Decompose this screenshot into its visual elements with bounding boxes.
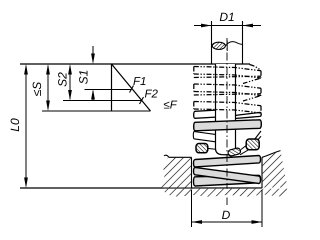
back strand W1 left part (white band) — [194, 110, 218, 118]
dimension D extension right — [261, 190, 263, 227]
block left top edge — [164, 155, 192, 157]
connector right xs to dome lens — [240, 145, 249, 155]
coil band G2 (gray top bar) — [194, 156, 261, 167]
svg-text:S1: S1 — [77, 70, 91, 85]
dimension lessEqual S — [46, 64, 50, 111]
centerline — [226, 38, 228, 205]
phantom free spring turn 2 — [194, 84, 261, 101]
lessEqual S level / triangle base line — [42, 110, 151, 112]
force triangle vertical — [111, 64, 113, 111]
rod break cross-section (hatched ellipse) — [212, 42, 225, 49]
block under-floor hatch — [163, 189, 288, 197]
wire cross-section left — [196, 144, 208, 153]
svg-text:≤F: ≤F — [164, 100, 178, 112]
bottom base line — [20, 187, 262, 189]
guide rod body — [216, 64, 236, 150]
connector left xs to rod — [208, 147, 216, 150]
rod dome end — [216, 149, 231, 155]
coil band G4 (gray bottom) — [194, 175, 261, 186]
wire cross-section at dome (lens) — [227, 147, 241, 156]
dimension D — [192, 220, 263, 224]
back strand W2 left lines — [193, 132, 215, 142]
svg-text:S2: S2 — [56, 72, 70, 87]
S1 level line — [85, 89, 132, 91]
svg-text:F1: F1 — [133, 76, 146, 88]
phantom free spring turn 1 — [194, 65, 261, 84]
block right top edge — [262, 151, 281, 158]
rod break wave curve — [226, 42, 243, 46]
svg-text:D: D — [222, 208, 231, 222]
svg-text:≤S: ≤S — [30, 82, 44, 97]
dimension L0 — [24, 64, 28, 188]
wire cross-section right — [246, 139, 259, 150]
dimension S1 (arrows outside) — [91, 46, 95, 101]
back strand W1 right part (white band) — [234, 112, 262, 118]
phantom free spring turn 3 — [194, 102, 261, 114]
tick F2 — [140, 97, 144, 104]
back strand W2 right lines — [255, 131, 262, 141]
dimension D1 — [194, 24, 261, 28]
S2 level line — [63, 100, 142, 102]
svg-text:D1: D1 — [219, 10, 234, 24]
dimension D extension left — [191, 190, 193, 227]
counterbore left wall — [191, 157, 193, 188]
block left wall hatch — [162, 158, 192, 188]
block right wall hatch — [263, 151, 288, 188]
force triangle hypotenuse — [112, 64, 151, 111]
coil band G1 (gray) — [194, 120, 262, 131]
centerline solid segment at break — [226, 41, 228, 52]
counterbore right wall — [261, 157, 263, 188]
top free-length line — [20, 63, 250, 65]
svg-text:L0: L0 — [8, 118, 22, 132]
coil band G3 (gray diagonal) — [194, 167, 261, 183]
rod upper (D1) left edge / extension — [211, 21, 213, 64]
rod upper right edge / extension — [242, 21, 244, 64]
tick F1 — [130, 86, 134, 93]
svg-text:F2: F2 — [145, 89, 159, 101]
dimension S2 — [68, 64, 72, 101]
